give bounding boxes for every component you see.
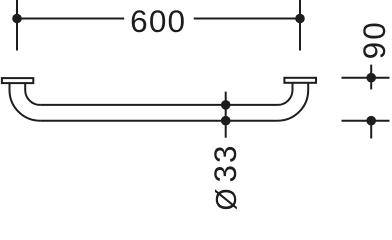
tube bottom edge bbox=[40, 120, 278, 122]
tube top edge bbox=[40, 104, 278, 106]
diameter leader line (Ø33) bbox=[225, 92, 227, 138]
dimension line 600 right segment bbox=[194, 18, 300, 20]
tube right outer edge bbox=[278, 84, 309, 121]
tube left outer edge bbox=[9, 84, 40, 121]
dim dot 600 left bbox=[12, 14, 22, 24]
tube right inner edge bbox=[278, 84, 293, 105]
tube left inner edge bbox=[25, 84, 40, 105]
extension line right (600 dim) bbox=[299, 0, 301, 51]
extension line left (600 dim) bbox=[16, 0, 18, 51]
svg-text:90: 90 bbox=[356, 20, 392, 59]
svg-text:600: 600 bbox=[130, 3, 186, 39]
90 dim top line bbox=[342, 77, 390, 79]
dim dot 90 bottom bbox=[366, 116, 376, 126]
dim dot 600 right bbox=[295, 14, 305, 24]
dimension line 600 left segment bbox=[17, 18, 124, 20]
90 dim bottom line bbox=[342, 120, 390, 122]
dim dot tube bottom bbox=[221, 116, 231, 126]
90 dim top stub bbox=[370, 65, 372, 90]
right flange plate bbox=[284, 78, 316, 83]
dim dot 90 top bbox=[366, 73, 376, 83]
svg-text:Ø33: Ø33 bbox=[207, 143, 243, 210]
dim dot tube top bbox=[221, 100, 231, 110]
90 dim bottom stub bbox=[370, 121, 372, 139]
left flange plate bbox=[2, 78, 33, 83]
